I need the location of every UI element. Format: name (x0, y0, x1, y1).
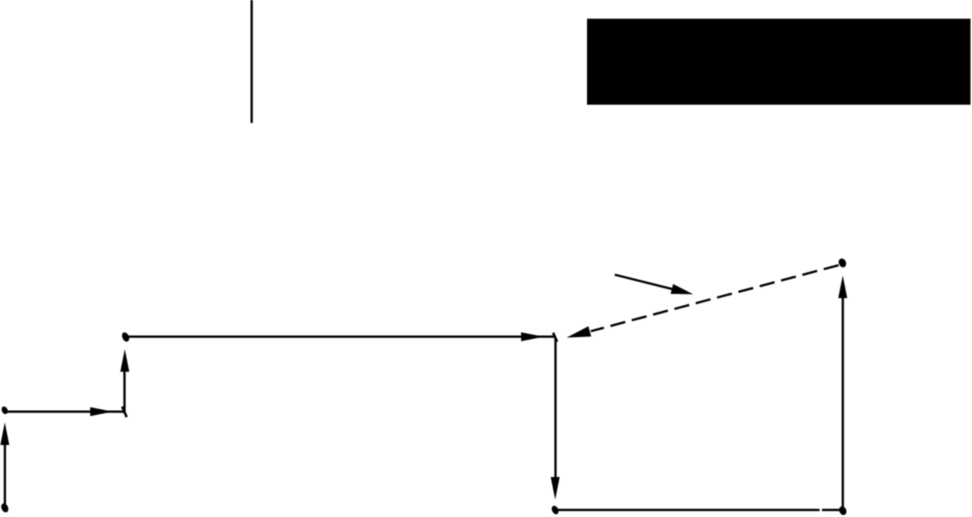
wire S7 vertical right (842, 298, 844, 509)
arrowhead S8 (solid, pointing lower-left) (567, 326, 592, 337)
dashed line S8 (591, 265, 841, 332)
wire S1 vertical (4, 444, 6, 507)
wire S4 long horizontal (128, 336, 555, 338)
node D4 (121, 331, 131, 343)
wire S6 bottom horizontal part 1 (558, 509, 820, 511)
arrowhead S9 (solid, pointing right-down) (671, 284, 694, 294)
arrowhead S4 right (521, 332, 544, 341)
black filled rectangle (redacted block) (587, 19, 971, 105)
arrowhead S5 down (551, 477, 560, 500)
top vertical line (251, 0, 253, 123)
wire S5 vertical down (554, 338, 556, 478)
annotation arrow line S9 (615, 275, 672, 289)
node D6 bottom-right (838, 505, 848, 516)
wire S6 bottom horizontal part 2 (822, 509, 841, 511)
wire S3 vertical (123, 372, 125, 413)
node D7 top-right (837, 257, 847, 268)
tick T3 junction (122, 407, 127, 418)
node D5 (550, 505, 559, 516)
tick T5 junction (553, 333, 557, 342)
arrowhead S7 up (838, 276, 847, 299)
arrowhead S2 right (90, 407, 113, 416)
node D1 bottom-left (0, 502, 10, 513)
arrowhead S3 up (120, 349, 129, 372)
wire S2 horizontal (6, 411, 124, 413)
node D2 (0, 405, 9, 415)
arrowhead S1 up (0, 422, 9, 445)
